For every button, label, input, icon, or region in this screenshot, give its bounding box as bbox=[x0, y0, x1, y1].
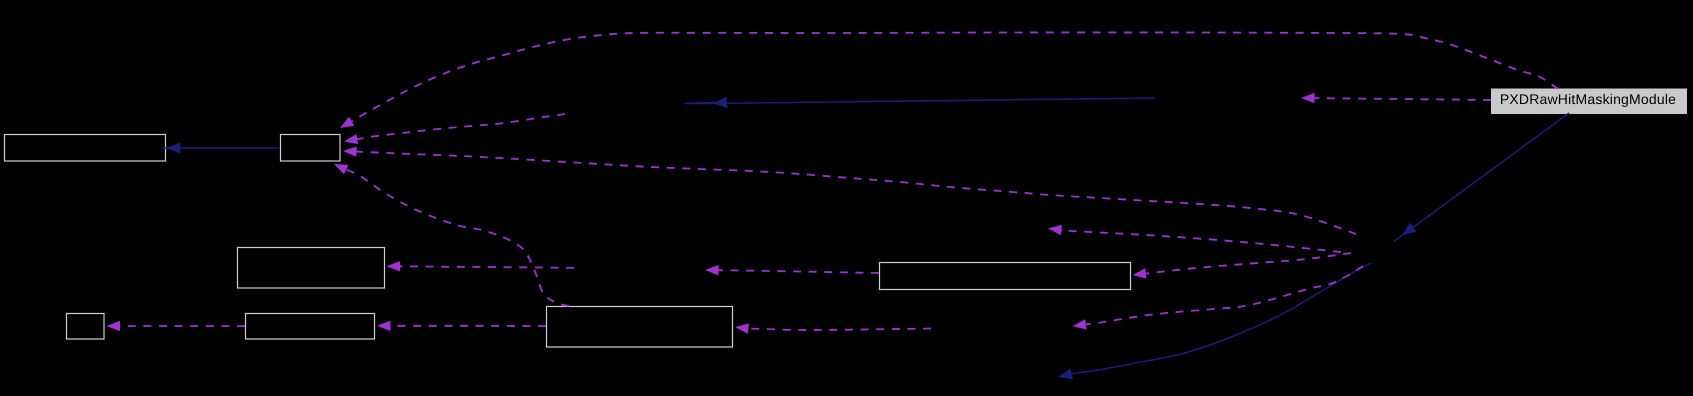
usage arrow E -> D (dashed purple) bbox=[107, 321, 246, 331]
usage arrow hidden hub -> G (dashed purple) bbox=[1133, 253, 1352, 279]
class box C (label hidden) bbox=[238, 248, 385, 289]
usage arrow PXDRawHitMaskingModule -> hidden-node4 (dashed purple) bbox=[1301, 93, 1491, 103]
inheritance arrow hidden hub -> hidden-node5 (curved solid blue) bbox=[1058, 263, 1371, 380]
usage arrow hidden-node2 -> C (dashed purple) bbox=[387, 261, 575, 271]
class box D (label hidden) bbox=[67, 314, 105, 340]
inheritance arrow B -> A (solid blue) bbox=[163, 142, 280, 153]
usage arrow PXDRawHitMaskingModule -> B (long top arc, dashed purple) bbox=[340, 32, 1558, 128]
usage arrow hidden-node3 -> F (dashed purple) bbox=[735, 323, 931, 333]
svg-text:PXDRawHitMaskingModule: PXDRawHitMaskingModule bbox=[1500, 91, 1676, 107]
class box E (label hidden) bbox=[246, 314, 375, 340]
class box A (base class, label hidden) bbox=[5, 135, 166, 162]
usage arrow hidden hub -> hidden-node6 (dashed purple) bbox=[1048, 225, 1341, 252]
usage arrow hidden hub -> B (long flat dashed purple) bbox=[343, 146, 1356, 234]
inheritance arrow hidden-node4 -> hidden-node1 (solid blue) bbox=[685, 97, 1155, 108]
class box F (label hidden) bbox=[547, 307, 733, 348]
node PXDRawHitMaskingModule (current class, grey filled) bbox=[1491, 89, 1687, 115]
usage arrow hidden-node1 -> B (dashed purple) bbox=[344, 114, 565, 144]
inheritance arrow PXDRawHitMaskingModule -> hidden hub (solid blue) bbox=[1394, 113, 1569, 241]
usage arrow F -> E (dashed purple) bbox=[377, 321, 546, 331]
usage arrow G -> hidden-node2 (dashed purple) bbox=[705, 265, 879, 275]
class box G (label hidden) bbox=[880, 263, 1131, 290]
class box B (label hidden) bbox=[281, 135, 341, 162]
usage arrow F -> B (S-curve, dashed purple) bbox=[334, 164, 569, 306]
usage arrow hidden hub -> hidden-node3 (dashed purple) bbox=[1073, 266, 1364, 330]
